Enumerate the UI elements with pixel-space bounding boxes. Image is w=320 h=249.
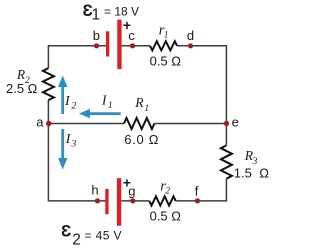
svg-text:b: b [93, 28, 100, 43]
current arrow I2 (up) [58, 76, 67, 115]
wire middle a to R1 [49, 123, 124, 125]
svg-text:a: a [36, 115, 44, 130]
battery EMF1 short plate (negative) [106, 31, 109, 56]
node b [94, 43, 99, 48]
current arrow I1 (left) [79, 109, 121, 118]
svg-text:I: I [101, 94, 108, 109]
wire battery1 to r1 [122, 45, 150, 47]
svg-text:1.5: 1.5 [234, 165, 252, 180]
svg-text:Ω: Ω [259, 165, 269, 180]
svg-text:2.5 Ω: 2.5 Ω [6, 81, 38, 96]
svg-text:3: 3 [252, 157, 258, 167]
wire top-left: corner to battery1 [48, 46, 106, 68]
node h [95, 198, 100, 203]
svg-text:2: 2 [72, 101, 77, 111]
node d [188, 43, 193, 48]
battery EMF2 short plate (negative) [105, 189, 108, 214]
svg-text:= 18 V: = 18 V [104, 5, 139, 19]
resistor R2 2.5ohm (left, vertical) [43, 68, 54, 100]
svg-text:3: 3 [71, 139, 77, 149]
svg-text:d: d [187, 28, 194, 43]
svg-text:f: f [195, 183, 199, 198]
node c [130, 43, 135, 48]
svg-text:g: g [128, 183, 135, 198]
svg-text:c: c [128, 28, 135, 43]
svg-text:= 45 V: = 45 V [85, 228, 122, 242]
svg-text:0.5 Ω: 0.5 Ω [150, 54, 182, 69]
svg-text:2: 2 [165, 187, 170, 197]
node g [130, 198, 135, 203]
wire R1 to e [154, 123, 226, 125]
svg-text:6.0 Ω: 6.0 Ω [124, 132, 159, 147]
svg-text:e: e [232, 115, 239, 130]
svg-text:1: 1 [108, 101, 113, 111]
node f [195, 198, 200, 203]
svg-text:1: 1 [164, 31, 169, 41]
node a [46, 121, 51, 126]
battery EMF2 tall plate (positive) [117, 178, 121, 226]
battery EMF1 tall plate (positive) [117, 20, 121, 69]
svg-text:I: I [64, 94, 71, 109]
current arrow I3 (down) [58, 129, 67, 169]
svg-text:1: 1 [92, 6, 101, 23]
svg-text:0.5 Ω: 0.5 Ω [150, 209, 182, 224]
svg-text:1: 1 [144, 104, 149, 114]
resistor R1 6.0ohm (middle, horizontal) [124, 118, 154, 129]
svg-text:R: R [134, 95, 144, 110]
resistor r2 0.5ohm (bottom, horizontal) [149, 196, 175, 205]
svg-text:h: h [91, 182, 98, 197]
wire battery2 to bottom-left corner up left side [48, 100, 105, 201]
wire r1 to top-right corner down to R3 [177, 46, 226, 146]
resistor R3 1.5ohm (right, vertical) [221, 145, 232, 178]
svg-text:2: 2 [72, 232, 81, 249]
wire R3 to bottom-right corner to f to r2 [176, 179, 227, 201]
resistor r1 0.5ohm (top, horizontal) [150, 41, 177, 50]
svg-text:Ɛ: Ɛ [61, 223, 71, 241]
wire r2 to battery2 [121, 200, 149, 202]
node e [224, 121, 229, 126]
